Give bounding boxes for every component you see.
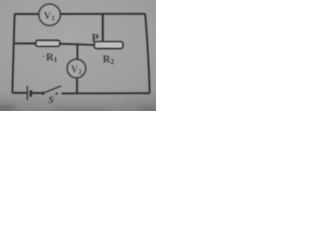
battery cell: short thick plate (29, 90, 32, 96)
stray mark before R1 label (42, 55, 45, 57)
resistor R1 (36, 40, 60, 46)
voltmeter V1 (39, 4, 60, 25)
switch S contact left (42, 92, 45, 95)
svg-text:S: S (48, 96, 53, 106)
wire middle row (left line to R2) (14, 43, 95, 45)
switch S lever (43, 86, 61, 93)
wire wiper P stem (102, 14, 104, 42)
svg-text:R2: R2 (103, 54, 115, 66)
wire top (14, 13, 145, 15)
switch S contact right (55, 92, 57, 94)
wire battery to switch (31, 92, 43, 94)
svg-text:R1: R1 (46, 53, 58, 65)
battery cell: long plate (26, 86, 28, 100)
voltmeter V2 (67, 59, 85, 77)
wire left vertical (12, 14, 14, 93)
rheostat R2 (94, 42, 123, 49)
wire V2 lower branch (76, 78, 78, 93)
wire right vertical (145, 14, 150, 93)
svg-text:P: P (92, 32, 99, 44)
wire V2 upper branch (76, 44, 78, 60)
wire bottom left segment (corner to battery) (12, 92, 27, 94)
paper background (0, 0, 156, 111)
wire bottom right segment (switch to corner) (62, 92, 150, 94)
